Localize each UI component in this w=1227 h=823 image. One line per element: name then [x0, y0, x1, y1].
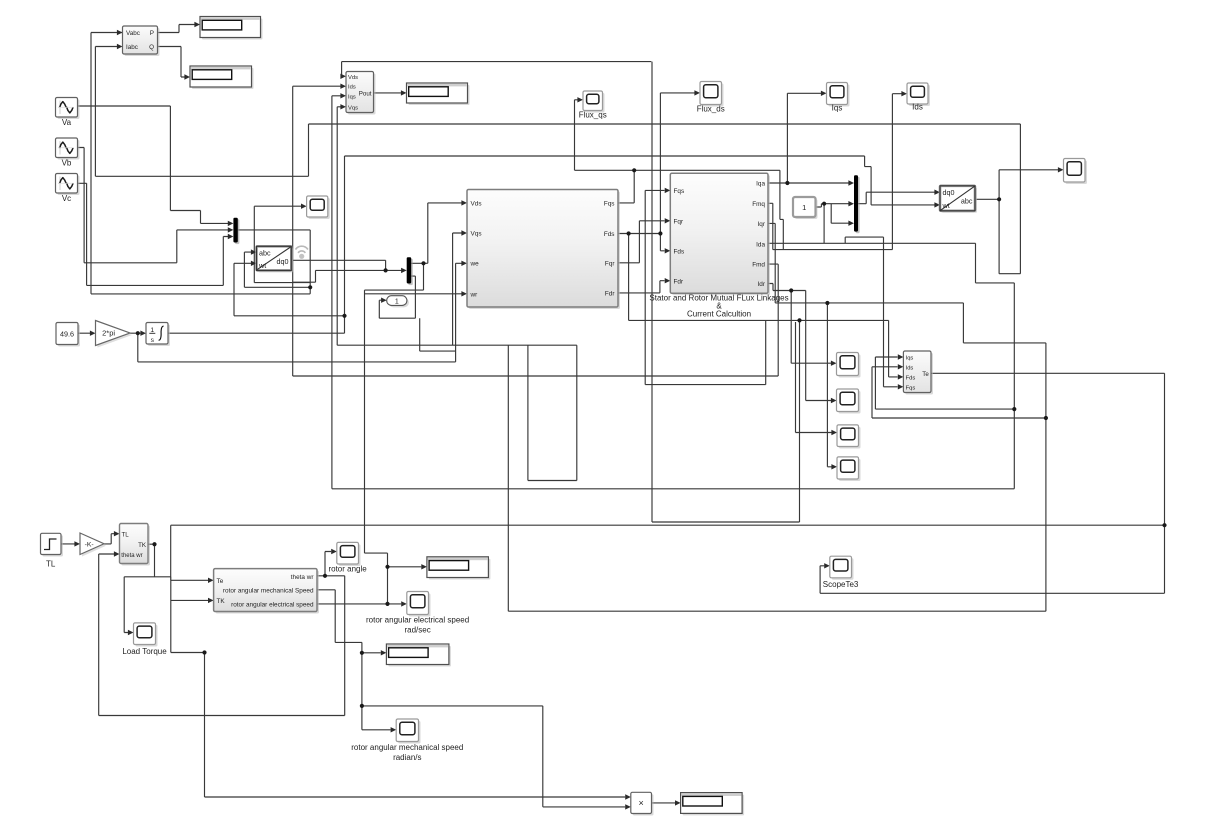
svg-text:abc: abc — [961, 197, 973, 206]
svg-text:Fmq: Fmq — [752, 201, 765, 208]
svg-text:rotor angular electrical speed: rotor angular electrical speed — [366, 616, 469, 625]
svg-text:Ida: Ida — [756, 242, 765, 249]
svg-text:1: 1 — [802, 203, 806, 212]
svg-text:Vds: Vds — [348, 75, 358, 81]
svg-text:wr: wr — [470, 291, 479, 298]
svg-text:49.6: 49.6 — [60, 330, 74, 339]
svg-text:TK: TK — [217, 598, 226, 605]
svg-text:ScopeTe3: ScopeTe3 — [823, 580, 859, 589]
svg-text:Iqr: Iqr — [758, 221, 766, 228]
svg-text:rad/sec: rad/sec — [404, 626, 430, 635]
svg-text:we: we — [470, 261, 480, 268]
svg-text:Iqa: Iqa — [756, 181, 765, 188]
svg-text:Ids: Ids — [912, 103, 923, 112]
svg-text:Te: Te — [922, 371, 929, 378]
svg-text:Te: Te — [217, 578, 224, 585]
svg-text:rotor angular mechanical Speed: rotor angular mechanical Speed — [223, 587, 314, 594]
svg-text:Current Calcultion: Current Calcultion — [687, 310, 751, 319]
svg-text:Vabc: Vabc — [126, 30, 140, 37]
svg-text:rotor angular mechanical speed: rotor angular mechanical speed — [351, 743, 463, 752]
svg-text:dq0: dq0 — [277, 257, 289, 266]
svg-text:abc: abc — [259, 248, 271, 257]
svg-text:TL: TL — [122, 532, 130, 539]
svg-text:Idr: Idr — [758, 281, 766, 288]
svg-text:Iabc: Iabc — [126, 44, 138, 51]
svg-text:rotor angle: rotor angle — [328, 565, 367, 574]
svg-text:theta wr: theta wr — [291, 574, 315, 581]
svg-text:Iqs: Iqs — [832, 104, 843, 113]
svg-text:-K-: -K- — [85, 541, 94, 548]
svg-text:Va: Va — [62, 118, 72, 127]
svg-text:Iqs: Iqs — [906, 356, 914, 362]
svg-text:TL: TL — [46, 560, 56, 569]
svg-text:Fds: Fds — [674, 248, 685, 255]
svg-text:TK: TK — [138, 542, 147, 549]
svg-text:Fqs: Fqs — [604, 201, 615, 208]
svg-text:P: P — [150, 30, 154, 37]
svg-text:wt: wt — [942, 201, 950, 210]
svg-text:Ids: Ids — [348, 85, 356, 91]
svg-text:Ids: Ids — [906, 365, 914, 371]
svg-text:Fds: Fds — [906, 376, 916, 382]
svg-text:wt: wt — [258, 261, 266, 270]
svg-text:1: 1 — [395, 298, 399, 305]
svg-text:Iqs: Iqs — [348, 94, 356, 100]
svg-text:Vc: Vc — [62, 194, 71, 203]
svg-text:dq0: dq0 — [943, 188, 955, 197]
svg-text:1: 1 — [150, 327, 154, 334]
svg-text:Load Torque: Load Torque — [122, 647, 167, 656]
svg-text:Fdr: Fdr — [674, 278, 684, 285]
svg-text:Vqs: Vqs — [348, 105, 358, 111]
svg-text:radian/s: radian/s — [393, 753, 421, 762]
svg-text:Fqs: Fqs — [674, 188, 685, 195]
svg-text:s: s — [151, 337, 155, 344]
svg-text:Vds: Vds — [471, 201, 482, 208]
svg-text:2*pi: 2*pi — [102, 329, 115, 338]
svg-text:Fqr: Fqr — [605, 260, 615, 267]
svg-text:rotor angular electrical speed: rotor angular electrical speed — [231, 602, 314, 609]
svg-text:Vqs: Vqs — [471, 231, 482, 238]
svg-text:Fqs: Fqs — [906, 385, 916, 391]
svg-text:Fqr: Fqr — [674, 218, 684, 225]
svg-text:Fds: Fds — [604, 231, 615, 238]
svg-text:×: × — [638, 798, 643, 808]
svg-text:Pout: Pout — [359, 90, 372, 97]
svg-text:Fdr: Fdr — [605, 291, 615, 298]
svg-text:Flux_ds: Flux_ds — [697, 105, 725, 114]
svg-text:Fmd: Fmd — [752, 262, 765, 269]
svg-text:Flux_qs: Flux_qs — [579, 111, 607, 120]
svg-text:theta wr: theta wr — [121, 553, 142, 559]
svg-text:Vb: Vb — [62, 159, 72, 168]
svg-text:Q: Q — [149, 44, 154, 51]
